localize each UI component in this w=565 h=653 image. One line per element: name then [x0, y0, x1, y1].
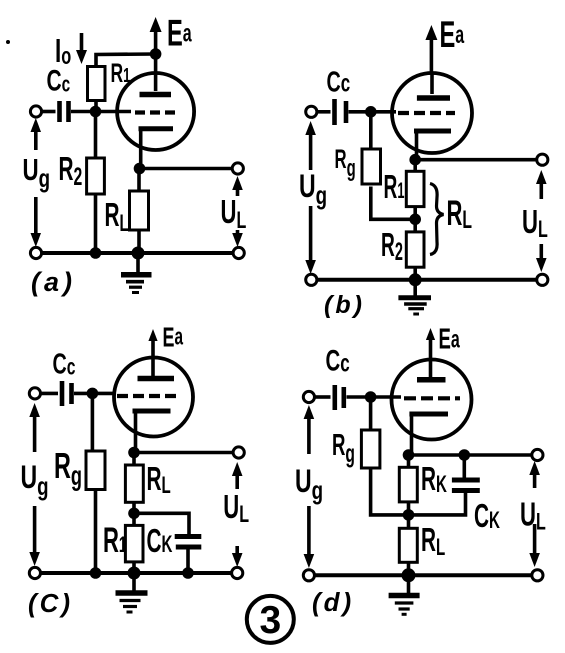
wire R1 to R2 (b) — [413, 207, 417, 232]
terminal output top (a) — [232, 163, 243, 174]
junction grid node (a) — [90, 106, 102, 118]
supply arrow Ea (c) — [148, 329, 157, 360]
label Ug (c) — [21, 459, 49, 500]
capacitor Cc (a) — [42, 101, 95, 122]
wire bottom rail (d) — [309, 573, 538, 577]
brace RL (b) — [430, 184, 444, 255]
junction RK RL node (d) — [403, 509, 415, 521]
junction grid node (b) — [365, 106, 377, 118]
wire RL bottom to R1 node (c) — [132, 502, 136, 525]
wire R2 bottom to rail (b) — [413, 267, 417, 280]
svg-text:(d): (d) — [312, 587, 354, 617]
junction rail ground (d) — [402, 568, 416, 582]
label R2 (a) — [59, 150, 83, 191]
label RK (d) — [421, 460, 447, 498]
supply arrow Ea (b) — [425, 25, 437, 74]
wire RL top (a) — [137, 169, 141, 192]
label Cc (a) — [47, 65, 71, 97]
label Cc (c) — [53, 349, 76, 381]
terminal output bottom (c) — [232, 567, 243, 578]
tube V1 (a) — [117, 54, 194, 169]
svg-text:3: 3 — [259, 599, 281, 642]
label Cc (b) — [327, 67, 351, 99]
label Ug (a) — [23, 152, 51, 192]
svg-text:(b): (b) — [324, 291, 365, 319]
wire Ea junction to R1 top (a) — [96, 54, 156, 67]
label R2 (b) — [381, 227, 403, 266]
voltage arrow UL up (d) — [529, 461, 540, 488]
ground (d) — [389, 575, 420, 614]
wire grid node to Rg (d) — [369, 397, 373, 430]
wire grid node to tube (b) — [370, 110, 396, 114]
voltage arrow Ug down (a) — [31, 197, 42, 247]
svg-text:Cc: Cc — [327, 67, 351, 99]
voltage arrow Ug up (c) — [29, 403, 40, 452]
voltage arrow UL down (c) — [232, 546, 243, 567]
junction RL rail ground (a) — [132, 247, 145, 260]
voltage arrow Ug up (d) — [304, 405, 315, 454]
capacitor CK (c) — [175, 537, 202, 574]
wire R2 bottom to rail (a) — [94, 194, 98, 253]
label R1 (a) — [111, 57, 131, 88]
terminal output top (b) — [537, 154, 548, 165]
resistor RL (d) — [399, 528, 417, 562]
wire R1 bottom to rail (c) — [132, 562, 136, 573]
wire bottom rail (a) — [36, 251, 239, 255]
wire grid node to Rg (b) — [369, 112, 373, 149]
label CK (d) — [474, 497, 500, 534]
wire Rg bottom to RK node (d) — [371, 468, 406, 515]
wire cathode node to RK (d) — [407, 455, 411, 467]
resistor Rg (c) — [86, 451, 105, 490]
terminal output bottom (a) — [233, 247, 244, 258]
junction cathode node (b) — [409, 154, 421, 166]
label Ug (d) — [295, 463, 323, 504]
svg-text:Cc: Cc — [326, 345, 350, 378]
label Rg (b) — [335, 144, 356, 182]
wire grid node to tube (d) — [370, 395, 401, 399]
wire RK bottom to node (d) — [407, 502, 411, 528]
voltage arrow Ug down (d) — [304, 506, 315, 568]
terminal input bottom (d) — [303, 570, 314, 581]
svg-text:Cc: Cc — [53, 349, 76, 381]
wire cathode node to output (d) — [409, 453, 533, 457]
label UL (b) — [522, 204, 548, 243]
voltage arrow UL up (c) — [232, 462, 243, 489]
resistor Rg (b) — [362, 149, 381, 184]
junction rail ground (b) — [409, 273, 422, 286]
wire Rg bottom to R1 R2 node (b) — [371, 187, 415, 220]
resistor RL (a) — [130, 191, 149, 230]
voltage arrow UL up (a) — [232, 176, 243, 196]
supply arrow Ea (d) — [426, 328, 435, 362]
label Ug (b) — [299, 168, 327, 209]
capacitor Cc (b) — [317, 99, 370, 125]
tube V1 (d) — [392, 360, 472, 456]
terminal output top (d) — [532, 449, 543, 460]
terminal input top (c) — [29, 388, 40, 399]
label UL (c) — [223, 489, 249, 528]
resistor Rg (d) — [361, 430, 380, 468]
svg-text:Ea: Ea — [163, 321, 184, 352]
voltage arrow Ug up (b) — [305, 121, 316, 170]
label Rg (c) — [54, 447, 82, 492]
resistor R1 (b) — [406, 171, 424, 206]
voltage arrow UL down (d) — [529, 524, 540, 567]
voltage arrow Ug down (b) — [305, 206, 316, 274]
wire cathode node to output (b) — [415, 158, 537, 162]
ground (a) — [121, 253, 152, 293]
ground (b) — [398, 280, 431, 314]
wire R1 bottom to grid node (a) — [94, 101, 98, 112]
voltage arrow Ug down (c) — [29, 506, 40, 566]
junction CK top node (d) — [459, 449, 471, 461]
label R1 (b) — [384, 169, 405, 206]
junction grid node (d) — [365, 391, 377, 403]
label RL (b) — [447, 195, 473, 234]
voltage arrow UL down (a) — [232, 230, 243, 247]
wire cathode node to output (c) — [134, 451, 233, 455]
resistor R2 (a) — [87, 158, 105, 194]
svg-text:Ea: Ea — [439, 323, 461, 355]
terminal input top (b) — [306, 106, 317, 117]
stray ink dot top left — [6, 40, 10, 44]
wire grid node to Rg (c) — [91, 393, 95, 451]
junction RL R1 node (c) — [128, 508, 140, 520]
wire R2 top (a) — [94, 112, 98, 159]
label RL (d) — [421, 521, 445, 561]
figure number 3 — [247, 596, 294, 643]
terminal output top (c) — [233, 447, 244, 458]
resistor RK (d) — [399, 467, 417, 502]
wire cathode node to output (a) — [139, 167, 232, 171]
wire grid node to tube (a) — [95, 110, 131, 114]
label UL (a) — [221, 194, 247, 234]
resistor R1 (c) — [125, 525, 143, 562]
junction cathode node (a) — [134, 163, 146, 175]
wire cathode node to RL (c) — [132, 453, 136, 466]
junction node Ea (a) — [150, 48, 162, 60]
label Ea (b) — [440, 14, 465, 56]
junction grid node (c) — [87, 388, 99, 400]
wire grid node to tube (c) — [92, 392, 114, 396]
terminal input bottom (b) — [306, 274, 317, 285]
label RL (a) — [105, 196, 129, 237]
resistor R2 (b) — [406, 232, 424, 267]
svg-text:(a): (a) — [31, 267, 76, 297]
resistor R1 (a) — [88, 67, 106, 101]
resistor RL (c) — [125, 465, 143, 502]
junction cathode node (d) — [403, 449, 415, 461]
voltage arrow Ug up (a) — [31, 118, 42, 150]
label CK (c) — [147, 522, 173, 559]
junction Rg rail (c) — [90, 567, 102, 579]
label RL (c) — [147, 460, 171, 499]
terminal input bottom (a) — [30, 247, 41, 258]
wire bottom rail (c) — [35, 571, 237, 575]
terminal input top (d) — [303, 391, 314, 402]
terminal input top (a) — [30, 106, 41, 117]
capacitor Cc (c) — [41, 381, 93, 406]
label Rg (d) — [332, 428, 355, 468]
junction R1 rail ground (c) — [128, 567, 141, 580]
terminal output bottom (b) — [537, 274, 548, 285]
tube V1 (b) — [392, 73, 472, 160]
current arrow Io (a) — [76, 33, 87, 64]
label Ea (a) — [167, 12, 192, 54]
wire node to CK (c) — [134, 513, 189, 534]
supply arrow Ea (a) — [150, 17, 162, 54]
junction R2 rail (a) — [90, 247, 102, 259]
tube V1 (c) — [114, 358, 193, 453]
label Io (a) — [55, 32, 71, 70]
ground (c) — [116, 573, 148, 612]
wire bottom rail (b) — [311, 278, 542, 282]
label Ea (d) — [439, 323, 461, 355]
terminal output bottom (d) — [532, 570, 543, 581]
wire Rg bottom to rail (c) — [94, 490, 98, 574]
capacitor CK (d) — [409, 455, 480, 515]
wire RL bottom to rail (d) — [407, 562, 411, 575]
terminal input bottom (c) — [29, 567, 40, 578]
wire cathode node to R1 (b) — [413, 160, 417, 172]
wire RL bottom to rail (a) — [137, 230, 141, 253]
svg-text:(C): (C) — [28, 588, 73, 618]
junction cathode node (c) — [128, 447, 140, 459]
capacitor Cc (d) — [315, 385, 371, 410]
label R1 (c) — [103, 522, 127, 560]
voltage arrow UL down (b) — [536, 244, 547, 272]
label Cc (d) — [326, 345, 350, 378]
label UL (d) — [520, 496, 546, 535]
junction R1 R2 node (b) — [409, 214, 421, 226]
label Ea (c) — [163, 321, 184, 352]
voltage arrow UL up (b) — [536, 170, 547, 199]
junction CK rail (c) — [182, 567, 194, 579]
